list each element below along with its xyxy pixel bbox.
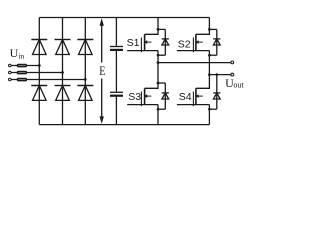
svg-text:S4: S4 [179, 91, 192, 103]
svg-text:S2: S2 [178, 39, 191, 51]
svg-text:S3: S3 [128, 91, 141, 103]
svg-text:S1: S1 [127, 37, 140, 49]
svg-text:E: E [99, 63, 105, 78]
